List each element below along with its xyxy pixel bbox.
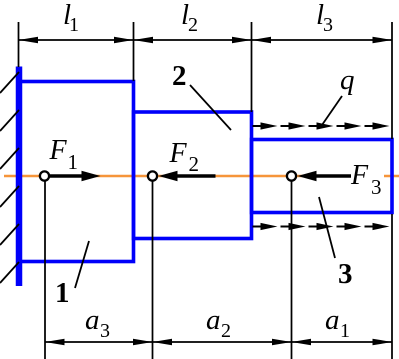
label a3 (85, 304, 110, 342)
label l1 (63, 0, 79, 36)
label l3 (316, 0, 333, 36)
svg-text:F: F (350, 160, 369, 191)
hinge point 1 (40, 171, 49, 180)
segment 3 outline (252, 140, 393, 213)
segment 1 outline (19, 82, 134, 262)
top dimension extension line at right end (391, 22, 393, 139)
top dimension arrowheads (19, 37, 393, 44)
top dimension line (19, 39, 393, 41)
svg-text:2: 2 (188, 14, 198, 36)
label F2 (169, 138, 200, 176)
svg-text:a: a (206, 304, 221, 336)
bottom dimension line (45, 341, 392, 343)
label F1 (49, 135, 79, 174)
force F3 arrow (298, 171, 354, 181)
leader line for label 1 (75, 241, 89, 288)
svg-text:1: 1 (68, 150, 79, 174)
extension line below F2 (152, 181, 154, 359)
segment 1 body fill (19, 82, 134, 262)
svg-text:3: 3 (371, 175, 382, 199)
force F1 arrow (49, 171, 101, 181)
force F2 arrow (159, 171, 216, 181)
top dimension extension line at wall (18, 22, 20, 67)
svg-text:2: 2 (172, 60, 187, 92)
svg-text:1: 1 (55, 277, 70, 309)
top dimension extension line at step 2-3 (251, 22, 253, 112)
axis centerline (4, 175, 399, 177)
svg-text:2: 2 (221, 320, 231, 342)
bottom dimension arrowheads (45, 339, 392, 346)
top dimension extension line at step 1-2 (133, 22, 135, 81)
svg-text:a: a (85, 304, 100, 336)
extension line below F1 (44, 181, 46, 359)
hinge point 2 (148, 171, 157, 180)
segment 3 body fill (252, 140, 393, 213)
svg-text:1: 1 (69, 14, 79, 36)
svg-text:3: 3 (100, 320, 110, 342)
svg-text:q: q (340, 64, 355, 96)
leader line for q (322, 96, 342, 125)
wall (fixed support) (16, 67, 23, 287)
svg-text:1: 1 (340, 320, 350, 342)
label a1 (325, 304, 350, 342)
label a2 (206, 304, 231, 342)
distributed load q bottom row (253, 223, 390, 230)
leader line for label 2 (190, 85, 231, 130)
label F3 (350, 160, 384, 199)
segment 2 body fill (134, 112, 252, 239)
segment 2 outline (134, 112, 252, 239)
svg-text:2: 2 (189, 152, 200, 176)
label l2 (181, 0, 198, 36)
svg-text:3: 3 (338, 258, 353, 290)
hinge point 3 (287, 171, 296, 180)
svg-text:F: F (169, 138, 188, 169)
svg-text:a: a (325, 304, 340, 336)
leader line for label 3 (319, 197, 335, 258)
svg-text:F: F (49, 135, 68, 166)
extension line below F3 (291, 181, 293, 359)
extension line below right end (391, 214, 393, 359)
svg-text:3: 3 (323, 14, 333, 36)
distributed load q top row (253, 122, 390, 129)
wall hatching (0, 72, 19, 283)
